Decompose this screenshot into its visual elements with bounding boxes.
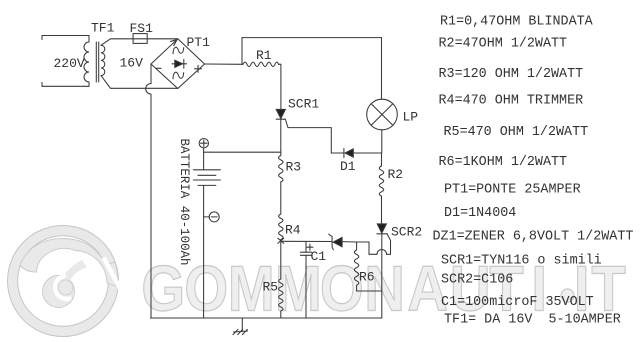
svg-text:R5=470 OHM 1/2WATT: R5=470 OHM 1/2WATT [444, 125, 589, 140]
battery cells [203, 148, 205, 170]
svg-text:D1: D1 [340, 159, 356, 174]
wire R4 node down to R5 [280, 241, 282, 279]
wire SCR2 cathode [381, 234, 383, 318]
lamp LP [367, 99, 398, 130]
wire SCR1 cathode [280, 119, 282, 152]
resistor R3 [279, 152, 283, 182]
thyristor SCR2 [377, 224, 386, 233]
logo head eye [58, 280, 73, 295]
fuse FS1 [133, 34, 147, 44]
resistor R6 [354, 242, 358, 291]
svg-text:R3: R3 [286, 160, 302, 175]
bridge internal diode [172, 63, 187, 65]
wire SCR2 gate with hop [357, 234, 391, 254]
battery minus terminal [204, 216, 210, 218]
svg-text:SCR2=C106: SCR2=C106 [441, 273, 513, 288]
wire R1 to SCR1 anode [279, 64, 281, 109]
svg-text:R4: R4 [285, 223, 301, 238]
svg-text:R6=1KOHM 1/2WATT: R6=1KOHM 1/2WATT [439, 155, 568, 170]
logo gap slash [104, 258, 122, 292]
bridge AC squiggle top [173, 47, 184, 54]
watermark text GOMMONAUTI.IT [141, 252, 626, 324]
transformer TF1 primary top lead [42, 36, 89, 40]
svg-text:TF1: TF1 [91, 21, 115, 36]
svg-text:R6: R6 [359, 270, 375, 285]
wire rail down to lamp [381, 38, 383, 100]
svg-text:R1: R1 [256, 48, 272, 63]
logo head spiral channel [55, 276, 69, 299]
bridge minus sign [156, 67, 161, 69]
svg-text:220V: 220V [54, 56, 85, 71]
wire lamp to node [381, 130, 383, 153]
watermark dot [561, 289, 574, 302]
resistor R1 [243, 62, 279, 66]
wire bridge minus down with hop [146, 64, 151, 318]
svg-text:R5: R5 [263, 280, 279, 295]
logo wave crest [20, 238, 118, 286]
wire SCR1 gate [285, 119, 344, 153]
logo wave eye neck [61, 260, 88, 283]
wire D1 to node [353, 152, 381, 154]
transformer TF1 primary bottom lead [42, 83, 89, 87]
wire R6 bottom to SCR2 cathode [357, 290, 382, 292]
wire battery plus to R3 node [204, 151, 281, 153]
zener DZ1 [329, 234, 334, 250]
svg-text:LP: LP [403, 110, 419, 125]
svg-text:R4=470 OHM TRIMMER: R4=470 OHM TRIMMER [439, 94, 584, 109]
resistor R4 trimmer [279, 214, 283, 241]
svg-text:PT1=PONTE 25AMPER: PT1=PONTE 25AMPER [444, 183, 581, 198]
battery plus terminal [199, 139, 208, 148]
svg-text:TF1= DA 16V 5-10AMPER: TF1= DA 16V 5-10AMPER [444, 313, 621, 328]
svg-text:DZ1=ZENER 6,8VOLT 1/2WATT: DZ1=ZENER 6,8VOLT 1/2WATT [433, 230, 634, 245]
arrow at bridge top vertex [171, 40, 177, 46]
transformer TF1 secondary winding [101, 45, 105, 75]
wire top rail riser [241, 38, 243, 65]
svg-text:SCR1=TYN116 o simili: SCR1=TYN116 o simili [441, 254, 602, 269]
svg-text:BATTERIA 40-100Ah: BATTERIA 40-100Ah [177, 139, 191, 266]
svg-text:SCR1: SCR1 [288, 97, 319, 112]
bridge AC squiggle bottom [173, 72, 184, 79]
svg-text:R2=47OHM 1/2WATT: R2=47OHM 1/2WATT [439, 37, 568, 52]
thyristor SCR1 [276, 109, 285, 118]
capacitor C1 [305, 241, 307, 252]
svg-text:C1=100microF 35VOLT: C1=100microF 35VOLT [441, 295, 594, 310]
resistor R5 [279, 279, 283, 318]
bridge plus sign [195, 65, 202, 72]
wire secondary bottom lead to bridge bottom vertex [101, 76, 178, 89]
svg-text:SCR2: SCR2 [391, 225, 422, 240]
bottom rail [151, 317, 382, 319]
bridge PT1 diamond [151, 39, 205, 89]
svg-text:R1=0,47OHM BLINDATA: R1=0,47OHM BLINDATA [440, 15, 594, 30]
diode D1 [343, 149, 345, 158]
wire top rail [242, 37, 382, 39]
wire bridge+ to R1 [205, 63, 244, 65]
svg-text:16V: 16V [120, 56, 144, 71]
transformer TF1 primary winding [84, 36, 89, 87]
svg-text:R2: R2 [388, 167, 404, 182]
logo ring [8, 226, 119, 337]
svg-text:D1=1N4004: D1=1N4004 [444, 206, 516, 221]
wire secondary top lead to fuse and bridge [101, 39, 178, 45]
wire trigger node horizontal [281, 240, 332, 242]
svg-text:R3=120 OHM 1/2WATT: R3=120 OHM 1/2WATT [439, 67, 584, 82]
wire R3 to R4 [280, 182, 282, 214]
svg-text:FS1: FS1 [130, 21, 154, 36]
transformer core [95, 42, 97, 82]
C1 plus sign [307, 244, 313, 250]
svg-text:C1: C1 [311, 249, 327, 264]
resistor R2 [379, 153, 383, 224]
logo wave head [43, 276, 75, 308]
R4 wiper X [278, 238, 284, 243]
wire zener to R6 node [342, 241, 357, 243]
svg-text:PT1: PT1 [187, 35, 211, 50]
ground [241, 318, 243, 331]
